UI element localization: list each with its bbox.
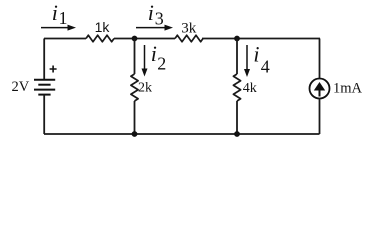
resistor R1 1k (horizontal zigzag) [86,35,114,42]
plus sign of battery [50,66,57,73]
current arrow i1 [41,27,69,29]
current arrow i2 [144,45,146,70]
wire: top-left segment from left corner to 1k [44,38,86,40]
wire: 4k branch lower stub [236,101,238,134]
svg-text:i: i [151,41,157,66]
node B junction dot (top of 4k branch) [234,36,240,42]
svg-text:2k: 2k [138,81,152,96]
wire: from 3k to top-right corner [202,38,320,40]
current arrow i4 [246,45,248,70]
battery V1 plate long lower [34,89,55,91]
svg-text:i: i [148,0,154,25]
resistor R4 4k (vertical zigzag) [233,74,240,101]
resistor R3 3k (horizontal zigzag) [175,35,203,42]
svg-text:4k: 4k [243,81,257,96]
svg-text:4: 4 [261,56,270,76]
svg-text:2: 2 [157,54,166,74]
battery V1 plate short bottom [38,94,50,96]
svg-text:i: i [253,41,259,66]
wire: bottom horizontal [44,133,320,135]
current source I1 arrow (up) [314,82,325,91]
wire: left vertical (top stub above battery) [43,39,45,81]
resistor R2 2k (vertical zigzag) [131,74,138,101]
svg-text:2V: 2V [12,79,30,95]
svg-text:1mA: 1mA [333,81,363,97]
wire: right vertical below current source [319,99,321,135]
battery V1 plate long top [34,79,55,81]
svg-text:1k: 1k [95,19,111,35]
current source I1 circle [310,79,330,99]
svg-text:1: 1 [59,8,68,28]
svg-text:i: i [52,0,58,25]
wire: 4k branch upper stub [236,39,238,75]
svg-text:3k: 3k [181,21,197,37]
current arrow i3 [136,27,166,29]
junction dot bottom of 4k branch [234,131,240,137]
battery V1 plate short [38,84,50,86]
wire: 2k branch lower stub [134,101,136,134]
wire: between 1k and node A [114,38,175,40]
wire: 2k branch upper stub [134,39,136,75]
node A junction dot (top of 2k branch) [132,36,138,42]
svg-text:3: 3 [155,8,164,28]
wire: left vertical (below battery) [43,95,45,134]
junction dot bottom of 2k branch [132,131,138,137]
wire: right vertical above current source [319,39,321,79]
